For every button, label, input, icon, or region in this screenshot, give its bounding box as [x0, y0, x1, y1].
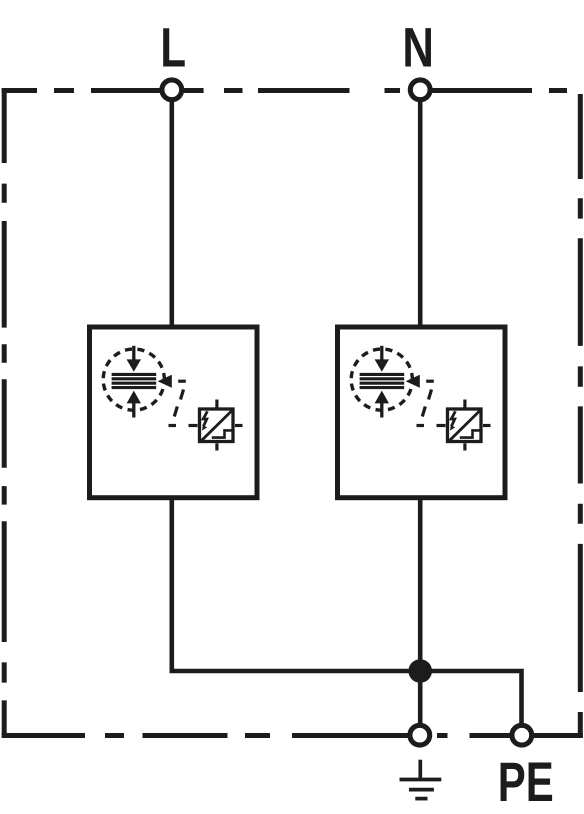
SPD1 trigger box top tick	[215, 400, 218, 408]
SPD2 spark gap: dashed circle	[351, 349, 412, 410]
SPD2 arrester U2	[338, 327, 506, 498]
SPD2 trigger device box	[448, 409, 482, 442]
junction node (filled)	[408, 659, 432, 683]
SPD1 dashed trigger lead	[169, 390, 184, 426]
SPD2 trigger box bottom tick	[463, 443, 466, 450]
SPD1 trigger box step wave	[212, 430, 232, 437]
SPD1 box outline	[90, 327, 258, 498]
SPD1 trigger device box	[200, 409, 234, 442]
enclosure border left (dash-dot line)	[2, 88, 7, 738]
terminal L (circle)	[162, 80, 182, 100]
SPD2 trigger box diagonal	[449, 409, 482, 441]
wire SPD2 bottom through node to ground terminal	[418, 498, 423, 724]
SPD1 spark gap: dashed circle	[103, 349, 164, 410]
SPD1 spark gap: electrode stack	[112, 374, 157, 387]
SPD1 arrester U1	[90, 327, 258, 498]
enclosure border top (dash-dot line)	[2, 88, 567, 93]
SPD2 box outline	[338, 327, 506, 498]
SPD1 trigger box right tick	[235, 424, 243, 427]
enclosure border bottom (dash-dot line)	[2, 733, 583, 738]
SPD1 trigger box diagonal	[201, 409, 234, 441]
ground terminal (circle)	[410, 725, 430, 745]
wire node to PE terminal	[420, 671, 521, 724]
SPD2 spark gap: electrode stack	[360, 374, 405, 387]
SPD2 trigger box lightning bolt	[451, 411, 455, 426]
svg-text:N: N	[402, 16, 434, 78]
SPD2 top arrow	[380, 346, 383, 361]
SPD2 bottom arrow	[380, 403, 383, 418]
SPD2 trigger box left tick	[437, 424, 446, 427]
SPD1 trigger box left tick	[189, 424, 198, 427]
SPD2 dashed trigger lead	[417, 390, 432, 426]
wire SPD1 bottom to junction node (L branch)	[172, 498, 420, 671]
terminal N (circle)	[410, 80, 430, 100]
SPD2 trigger box right tick	[483, 424, 491, 427]
wire N terminal to SPD2 top	[418, 92, 423, 327]
SPD1 trigger box lightning bolt	[203, 411, 207, 426]
SPD1 trigger box bottom tick	[215, 443, 218, 450]
PE terminal (circle)	[512, 725, 532, 745]
SPD2 trigger arrowhead	[406, 375, 420, 388]
SPD2 trigger box top tick	[463, 400, 466, 408]
enclosure border right (dash-dot line)	[578, 94, 583, 738]
SPD1 top arrow	[132, 346, 135, 361]
SPD1 trigger arrowhead	[158, 375, 172, 388]
SPD2 trigger box step wave	[460, 430, 480, 437]
SPD1 bottom arrow	[132, 403, 135, 418]
svg-text:PE: PE	[498, 751, 554, 813]
wire L terminal to SPD1 top	[170, 92, 175, 327]
earth ground symbol	[400, 760, 442, 799]
svg-text:L: L	[160, 17, 186, 79]
